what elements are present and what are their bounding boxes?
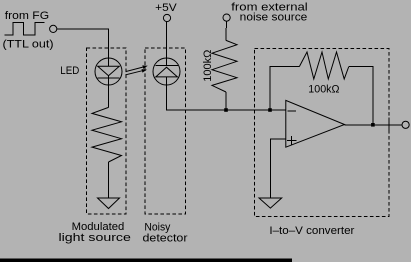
light arrow 2: [125, 69, 147, 75]
LED D1 triangle: [98, 66, 120, 76]
svg-text:noise source: noise source: [240, 11, 308, 23]
bottom black bar: [0, 259, 292, 262]
TTL square-wave symbol: [4, 22, 44, 35]
junction: inverting input node: [268, 108, 272, 112]
wire: through photodiode top: [166, 58, 168, 65]
svg-text:LED: LED: [60, 65, 79, 77]
svg-text:100kΩ: 100kΩ: [202, 50, 214, 82]
wire: R2 to node: [225, 92, 227, 110]
wire: +5V to photodiode: [166, 22, 168, 59]
svg-text:light source: light source: [59, 232, 131, 244]
ground (light source): [98, 198, 120, 209]
terminal: +5V: [163, 14, 170, 21]
resistor R3 100k (feedback): [299, 52, 348, 79]
terminal: external noise source: [223, 14, 230, 21]
photodiode D2 triangle: [156, 67, 178, 77]
light arrow 1: [126, 65, 147, 71]
junction: output node: [371, 123, 375, 127]
svg-text:from FG: from FG: [5, 10, 49, 22]
wire: LED cathode down to resistor: [108, 76, 110, 108]
resistor R1 (LED series): [92, 107, 122, 162]
wire: dash segment at box edge crossing: [388, 118, 390, 131]
wire: through LED: [108, 58, 110, 66]
dashed box: noisy detector: [145, 48, 186, 214]
svg-text:+5V: +5V: [155, 2, 177, 14]
op-amp U1: [286, 100, 345, 147]
wire: non-inverting input to ground: [270, 139, 285, 198]
wire: feedback right vertical: [349, 67, 373, 125]
dashed box: modulated light source: [87, 48, 127, 214]
op-amp minus sign: [288, 110, 297, 112]
LED D1 circle: [95, 58, 122, 85]
dashed box: I-to-V converter: [255, 49, 390, 217]
photodiode D2 circle: [153, 58, 180, 85]
terminal: output: [402, 121, 409, 128]
svg-text:I–to–V converter: I–to–V converter: [269, 225, 354, 237]
wire: R1 to ground: [108, 162, 110, 198]
svg-text:detector: detector: [143, 232, 188, 244]
terminal: FG input: [50, 25, 57, 32]
wire: noise terminal to resistor: [225, 21, 227, 40]
wire: photodiode anode down and right to op-amp: [167, 77, 286, 110]
wire: FG terminal to LED anode: [57, 29, 109, 58]
svg-text:(TTL out): (TTL out): [3, 39, 54, 51]
LED D1 cathode bar: [98, 77, 120, 79]
op-amp plus sign: [287, 136, 296, 145]
wire: feedback left vertical: [270, 67, 299, 111]
junction: noise node: [224, 108, 228, 112]
svg-text:100kΩ: 100kΩ: [308, 84, 339, 96]
photodiode D2 cathode bar: [155, 65, 178, 67]
resistor R2 100k (noise): [212, 40, 237, 92]
wire: op-amp output: [345, 124, 403, 126]
ground (op-amp + input): [259, 198, 282, 208]
